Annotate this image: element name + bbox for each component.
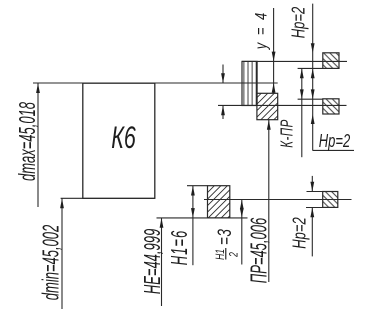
svg-text:dmin=45,002: dmin=45,002 (39, 224, 65, 300)
PR gauge box on PR line (box3) (323, 192, 338, 208)
arrowhead up x302 at 68.4 (300, 68, 304, 78)
arrowhead H1/2 down at 217.8 (240, 208, 244, 218)
arrowhead down x302 at 99.2 (300, 89, 304, 99)
arrowhead dmin up (60, 199, 64, 209)
Hp dimension common vertical line at x 313 (312, 4, 314, 151)
svg-text:2: 2 (227, 252, 241, 258)
svg-text:Н1: Н1 (213, 249, 227, 260)
dmax horizontal limit line (33, 82, 278, 84)
svg-text:ПР=45,006: ПР=45,006 (247, 217, 273, 283)
svg-text:Нр=2: Нр=2 (289, 217, 310, 248)
K6 tolerance field box (83, 83, 155, 198)
arrowhead K-PR leader up at 119.9 (267, 120, 271, 130)
arrowhead down at dmax x223 (221, 73, 225, 83)
K-PR / PR leader vertical line (268, 120, 270, 282)
svg-text:dmax=45,018: dmax=45,018 (15, 102, 41, 181)
svg-text:=3: =3 (214, 229, 236, 245)
arrowhead down x313 at 99.2 (311, 89, 315, 99)
svg-text:Н1=6: Н1=6 (167, 230, 193, 265)
Z dimension lower arrow line at x 223 (222, 105, 224, 119)
box3 Hp lower arrow line / bottom Hp label leader (311, 208, 313, 257)
Z dimension upper arrow line at x 223 (222, 65, 224, 84)
svg-text:НЕ=44,999: НЕ=44,999 (140, 229, 166, 295)
arrowhead y=4 up at dmax (272, 83, 276, 93)
box3 top extension line (307, 191, 323, 193)
label H1/2=3 with fraction (213, 229, 241, 260)
arrowhead box3 down at 191.5 (310, 182, 314, 192)
svg-text:Нр=2: Нр=2 (319, 131, 350, 152)
worn gauge zone box (vertical hatch) (242, 61, 257, 105)
H1/2 dimension line (241, 200, 243, 265)
H1 dimension line (192, 186, 194, 266)
svg-text:К6: К6 (111, 120, 136, 155)
upper control gauge bottom extension line (298, 67, 323, 69)
NE box top extension line (187, 185, 208, 187)
box3 Hp upper arrow line (311, 176, 313, 192)
Hp=2 label shelf line (313, 149, 355, 151)
arrowhead up x313 at 114.2 (311, 114, 315, 124)
arrowhead H1/2 up at 199.6 (240, 200, 244, 210)
arrowhead box3 up at 207.5 (310, 208, 314, 218)
svg-text:у = 4: у = 4 (252, 11, 271, 50)
box3 bottom extension line (306, 207, 324, 209)
NE box bottom extension line (157, 217, 248, 219)
svg-text:К-ПР: К-ПР (278, 119, 297, 148)
arrowhead y=4 down at L1 (272, 52, 276, 62)
svg-text:Нр=2: Нр=2 (288, 7, 309, 38)
NE leader vertical line (161, 218, 163, 306)
worn-limit horizontal line L1 (242, 60, 347, 62)
dmax leader vertical line (37, 83, 39, 207)
arrowhead H1 up at 185.7 (191, 186, 195, 196)
dmin horizontal limit line (61, 197, 155, 199)
lower control gauge top extension line (298, 98, 323, 100)
arrowhead H1 down at 217.9 (191, 208, 195, 218)
PR line (gauge center line) (204, 199, 352, 201)
arrowhead up x313 at 68.4 (311, 68, 315, 78)
dimension line between control gauges at x 302 (301, 68, 303, 157)
arrowhead up at L2 x223 (221, 105, 225, 115)
K-PR control gauge box (257, 93, 278, 119)
long center line L2 through K-PR (218, 104, 347, 106)
y=4 leader vertical line (273, 8, 275, 93)
arrowhead down x313 at 53 (311, 43, 315, 53)
lower right control gauge box Hp=2 (323, 99, 339, 114)
dmin leader vertical line (61, 199, 63, 310)
arrowhead dmax up (36, 83, 40, 93)
arrowhead NE leader up at 218 (160, 218, 164, 228)
NE gauge tolerance box (208, 186, 230, 218)
upper right control gauge box Hp=2 (323, 53, 339, 69)
